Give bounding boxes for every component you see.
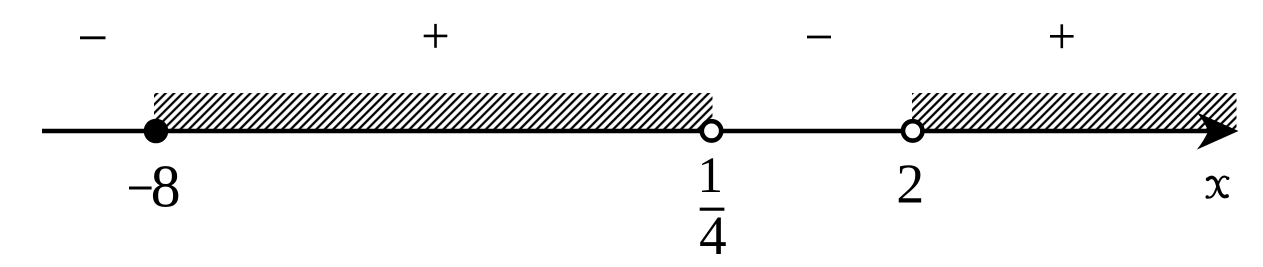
svg-text:2: 2 [896, 154, 924, 216]
svg-text:1: 1 [697, 148, 723, 204]
sign label plus over interval right of 2 [1050, 24, 1074, 48]
axis variable label x (math italic) [1206, 177, 1230, 199]
arrowhead at right end of number line [1197, 112, 1239, 149]
closed (filled) point at -8 [144, 119, 169, 144]
sign label minus over interval (1/4, 2) [807, 36, 831, 39]
label 1/4 : fraction bar [700, 208, 725, 211]
hatched interval from -8 to 1/4 [154, 93, 713, 129]
open point at 1/4 [702, 121, 721, 140]
sign label plus over interval (-8, 1/4) [424, 24, 448, 48]
sign label minus over interval left of -8 [80, 36, 106, 39]
svg-text:8: 8 [151, 154, 181, 220]
hatched interval from 2 to +infinity [912, 93, 1237, 129]
label -8 : minus bar [129, 187, 152, 190]
number line [42, 129, 1230, 134]
open point at 2 [903, 121, 922, 140]
svg-text:4: 4 [699, 205, 727, 266]
